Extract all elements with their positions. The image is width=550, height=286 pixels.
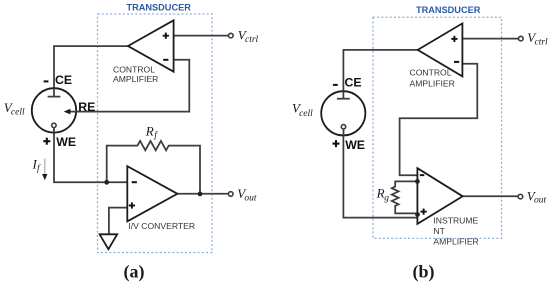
svg-text:R: R <box>145 123 154 138</box>
svg-text:CE: CE <box>345 76 362 90</box>
svg-text:CE: CE <box>55 73 72 87</box>
svg-text:AMPLIFIER: AMPLIFIER <box>410 78 455 88</box>
svg-text:AMPLIFIER: AMPLIFIER <box>433 236 478 246</box>
svg-text:TRANSDUCER: TRANSDUCER <box>127 2 192 12</box>
svg-text:cell: cell <box>11 107 25 117</box>
svg-text:RE: RE <box>78 100 95 114</box>
svg-text:ctrl: ctrl <box>245 35 259 45</box>
svg-text:g: g <box>384 193 389 203</box>
svg-text:NT: NT <box>433 226 445 236</box>
svg-text:cell: cell <box>299 109 313 119</box>
svg-text:(b): (b) <box>413 262 435 283</box>
svg-text:CONTROL: CONTROL <box>113 65 155 75</box>
svg-text:WE: WE <box>345 138 365 152</box>
svg-text:ctrl: ctrl <box>535 38 549 48</box>
svg-text:TRANSDUCER: TRANSDUCER <box>416 5 481 15</box>
svg-text:out: out <box>244 194 257 204</box>
svg-text:out: out <box>534 196 547 206</box>
svg-text:AMPLIFIER: AMPLIFIER <box>113 74 158 84</box>
svg-text:(a): (a) <box>124 262 145 283</box>
svg-text:WE: WE <box>56 135 76 149</box>
svg-text:I/V CONVERTER: I/V CONVERTER <box>128 221 195 231</box>
svg-text:INSTRUME: INSTRUME <box>433 216 478 226</box>
svg-text:CONTROL: CONTROL <box>410 68 452 78</box>
